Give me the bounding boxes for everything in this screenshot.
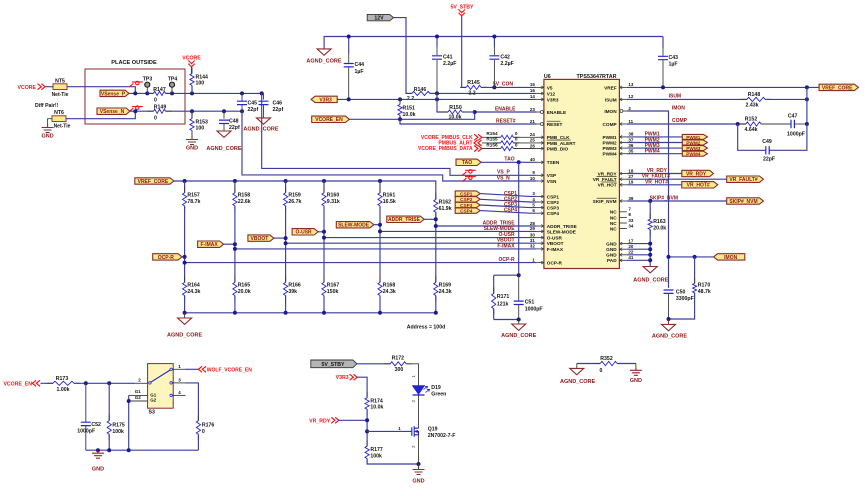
resistor R150 10.0k	[437, 93, 448, 112]
svg-text:100: 100	[196, 81, 205, 87]
capacitor C52 1000pF	[85, 383, 87, 422]
svg-text:16: 16	[530, 88, 536, 93]
svg-text:61.9k: 61.9k	[439, 206, 452, 212]
svg-text:PMB_DIO: PMB_DIO	[547, 146, 569, 151]
wire 5V_STBY to R172	[357, 363, 390, 365]
capacitor C51 1000pF	[518, 275, 520, 301]
svg-text:20: 20	[628, 244, 634, 249]
svg-text:10.0k: 10.0k	[403, 112, 416, 118]
svg-text:33: 33	[628, 218, 634, 223]
svg-text:39k: 39k	[288, 289, 297, 295]
wire VREF/ISUM/COMP vertical	[806, 87, 808, 124]
svg-text:C43: C43	[669, 55, 679, 61]
pin 39 SKIP_NVM (right)	[619, 200, 627, 202]
svg-text:R166: R166	[288, 283, 301, 289]
svg-text:NT5: NT5	[55, 78, 65, 84]
pin 11 COMP (right)	[619, 123, 627, 125]
svg-text:C51: C51	[525, 299, 535, 305]
svg-text:IMON: IMON	[604, 109, 617, 114]
wire VSense_P line	[129, 92, 154, 94]
capacitor C41 2.2uF	[436, 37, 438, 48]
capacitor C49 22pF (feedback)	[738, 124, 766, 150]
svg-text:Green: Green	[431, 391, 446, 397]
pin 9 VSP (left)	[536, 174, 544, 176]
net label V3R3	[311, 96, 337, 102]
svg-text:37: 37	[628, 137, 634, 142]
svg-text:SLEW-MODE: SLEW-MODE	[338, 223, 370, 229]
wire NT5 to VSense_P line	[67, 87, 135, 94]
ground GND (Q19)	[418, 464, 420, 467]
svg-text:TPS53647RTAR: TPS53647RTAR	[576, 74, 616, 80]
diff-pair marker (VS_N)	[462, 176, 476, 182]
wire O-USR to pin 30	[324, 237, 536, 239]
wire ADDR_TRISE to pin 28	[436, 225, 537, 227]
svg-text:ENABLE: ENABLE	[547, 110, 566, 115]
svg-text:VSN: VSN	[547, 179, 557, 184]
svg-text:22pF: 22pF	[763, 157, 775, 163]
wire V12 to pin 16	[430, 92, 537, 94]
pin 34 NC (right)	[619, 228, 627, 230]
svg-text:VR_RDY: VR_RDY	[598, 171, 618, 176]
svg-text:G1: G1	[135, 389, 142, 394]
wire array column 1	[184, 206, 186, 283]
wire IMON down	[627, 111, 669, 288]
svg-text:F-IMAX: F-IMAX	[200, 242, 218, 248]
svg-text:100: 100	[196, 126, 205, 132]
ground rail AGND_CORE (top bus)	[324, 37, 663, 49]
svg-text:NC: NC	[610, 215, 617, 220]
svg-text:SKIP#_NVM: SKIP#_NVM	[729, 199, 757, 205]
wire VSense_N line	[130, 110, 154, 112]
capacitor C47 1000pF	[761, 123, 791, 125]
svg-text:COMP: COMP	[672, 118, 688, 124]
svg-text:C45: C45	[248, 100, 258, 106]
svg-text:R352: R352	[600, 356, 613, 362]
resistor R176 0	[197, 415, 199, 441]
svg-text:2.2µF: 2.2µF	[500, 61, 513, 67]
ground AGND_CORE (C48)	[217, 131, 231, 137]
svg-text:28: 28	[530, 221, 536, 226]
ground AGND_CORE (C46)	[257, 118, 271, 124]
svg-text:TAO: TAO	[504, 157, 514, 163]
svg-text:R177: R177	[370, 447, 383, 453]
svg-text:R156: R156	[486, 142, 498, 147]
svg-text:17: 17	[628, 238, 634, 243]
svg-text:R169: R169	[439, 283, 452, 289]
wire array column 5	[379, 206, 381, 283]
svg-text:Q19: Q19	[428, 427, 438, 433]
svg-text:38: 38	[628, 132, 634, 137]
svg-text:COMP: COMP	[603, 122, 617, 127]
svg-text:VREF_CORE: VREF_CORE	[138, 179, 169, 185]
svg-text:IMON: IMON	[672, 105, 685, 111]
svg-text:1µF: 1µF	[355, 69, 364, 75]
svg-text:30: 30	[530, 232, 536, 237]
pin 7 NC (right)	[619, 211, 627, 213]
svg-text:0: 0	[154, 116, 157, 122]
wire VCORE_EN to ENABLE	[349, 112, 536, 119]
net label VREF_CORE (right)	[819, 84, 858, 90]
svg-text:SKIP#_NVM: SKIP#_NVM	[650, 195, 678, 201]
net label SLEW-MODE (tap)	[336, 222, 374, 228]
svg-text:VR_RDY: VR_RDY	[309, 418, 331, 424]
svg-text:24: 24	[530, 132, 536, 137]
svg-text:22pf: 22pf	[248, 107, 259, 113]
svg-text:V3R3: V3R3	[319, 97, 332, 103]
pin 26 PMB_DIO (left)	[536, 148, 544, 150]
svg-text:OCP-R: OCP-R	[547, 261, 563, 266]
pin 13 VREF (right)	[619, 86, 627, 88]
svg-text:AGND_CORE: AGND_CORE	[306, 58, 341, 64]
svg-text:SLEW-MODE: SLEW-MODE	[484, 226, 516, 232]
svg-text:V3R3: V3R3	[547, 97, 559, 102]
ground GND (R153)	[191, 131, 193, 137]
svg-text:3300pF: 3300pF	[676, 296, 694, 302]
svg-text:1µF: 1µF	[669, 62, 678, 68]
wire switch pin3 to R176	[172, 382, 185, 384]
resistor R169 24.3k	[435, 276, 437, 301]
svg-text:PWM4: PWM4	[686, 152, 700, 157]
svg-text:GND: GND	[606, 253, 617, 258]
resistor R151 10.0k	[399, 98, 401, 121]
svg-text:CSP3: CSP3	[547, 206, 560, 211]
svg-text:0: 0	[515, 137, 518, 142]
switch gate pins G1 G2	[129, 394, 148, 396]
svg-text:24.3k: 24.3k	[439, 289, 452, 295]
resistor R157 78.7k	[184, 181, 186, 193]
svg-text:CSP4: CSP4	[547, 211, 560, 216]
svg-text:VCORE_EN: VCORE_EN	[3, 382, 32, 388]
svg-text:10.0k: 10.0k	[449, 115, 462, 121]
svg-text:AGND_CORE: AGND_CORE	[652, 334, 687, 340]
wire F-IMAX to pin 32	[235, 248, 537, 250]
svg-text:12: 12	[628, 94, 634, 99]
wire ADDR_TRISE tap	[424, 218, 436, 220]
wire OCP-R tap	[182, 256, 185, 258]
svg-text:PAD: PAD	[607, 258, 617, 263]
wire V3R3 to R174	[357, 377, 368, 398]
wire array column 6	[435, 212, 437, 282]
svg-text:AGND_CORE: AGND_CORE	[206, 146, 241, 152]
svg-text:U6: U6	[544, 74, 551, 80]
ground AGND_CORE (C50/R170)	[668, 319, 670, 324]
net label CSP4	[455, 208, 480, 213]
svg-text:39: 39	[628, 196, 634, 201]
pin 16 V12 (left)	[536, 92, 544, 94]
svg-text:C47: C47	[788, 114, 798, 120]
resistor R163 20.0k	[649, 201, 651, 219]
svg-text:VSP: VSP	[547, 173, 556, 178]
svg-text:0: 0	[515, 142, 518, 147]
svg-text:PWM2: PWM2	[603, 140, 617, 145]
wire R154 to pin 24	[513, 136, 536, 138]
svg-text:40: 40	[530, 157, 536, 162]
pin 17 GND (right)	[619, 243, 627, 245]
svg-text:VR_RDY: VR_RDY	[686, 171, 707, 177]
svg-text:NC: NC	[610, 221, 617, 226]
svg-text:2.2µF: 2.2µF	[443, 61, 456, 67]
svg-text:PWM1: PWM1	[686, 135, 700, 140]
wire R173 to switch	[74, 382, 135, 384]
svg-text:GND: GND	[412, 479, 424, 485]
pin 4 CSP2 (left)	[536, 201, 544, 203]
svg-text:GND: GND	[630, 378, 642, 384]
svg-text:RESET#: RESET#	[496, 119, 516, 125]
net label VREF_CORE (array)	[135, 178, 174, 184]
net label ADDR_TRISE (tap)	[387, 216, 424, 222]
wire R172 to LED	[406, 364, 418, 386]
svg-text:VR_HOT: VR_HOT	[598, 183, 617, 188]
resistor R175 100k	[108, 383, 110, 420]
svg-text:22.6k: 22.6k	[238, 199, 251, 205]
svg-text:PWM1: PWM1	[603, 135, 617, 140]
net-tie NT5	[53, 84, 67, 90]
svg-text:PLACE OUTSIDE: PLACE OUTSIDE	[111, 60, 157, 66]
net label PWM3	[627, 147, 682, 149]
wire array bottom bus	[185, 312, 436, 314]
svg-text:VS_N: VS_N	[497, 175, 510, 181]
pin 21 RESET (left)	[536, 123, 544, 125]
power label 5V_STBY (grey)	[311, 360, 357, 368]
svg-text:CSP3: CSP3	[460, 203, 473, 208]
wire bottom-left ground bus	[86, 449, 199, 451]
svg-text:R165: R165	[238, 283, 251, 289]
resistor R166 39k	[285, 276, 287, 301]
ground AGND_CORE (array)	[184, 313, 186, 318]
ground AGND_CORE (bus left end)	[317, 49, 331, 55]
svg-text:22: 22	[628, 250, 634, 255]
svg-text:10: 10	[530, 176, 536, 181]
switch S3 contacts	[149, 382, 151, 384]
pin 22 GND (right)	[619, 254, 627, 256]
net label PWM2	[627, 142, 682, 144]
capacitor C48 22pf	[223, 111, 225, 118]
svg-text:22pf: 22pf	[229, 125, 240, 131]
svg-text:R174: R174	[370, 398, 383, 404]
svg-text:2N7002-7-F: 2N7002-7-F	[428, 433, 456, 439]
svg-text:VSense_N: VSense_N	[100, 109, 125, 115]
svg-text:C41: C41	[443, 54, 453, 60]
svg-text:5V_STBY: 5V_STBY	[321, 362, 345, 368]
pin 24 PMB_CLK (left)	[536, 136, 544, 138]
svg-text:RESET: RESET	[547, 122, 563, 127]
pin 18 VR_RDY (right)	[619, 173, 627, 175]
diff-pair marker (VS_P)	[462, 170, 476, 176]
wire CSP3 to pin	[480, 205, 536, 208]
svg-text:78.7k: 78.7k	[187, 199, 200, 205]
net label VBOOT (tap)	[248, 235, 274, 241]
power label 12V	[367, 14, 393, 20]
resistor R174 10.0k	[366, 392, 368, 415]
svg-text:R155: R155	[486, 137, 498, 142]
svg-text:NC: NC	[610, 226, 617, 231]
wire G2 to ground bus	[128, 395, 130, 450]
svg-text:R167: R167	[327, 283, 340, 289]
ic U6 TPS53647RTAR body	[544, 79, 620, 268]
svg-text:OCP-R: OCP-R	[498, 257, 515, 263]
svg-text:C46: C46	[273, 100, 283, 106]
svg-text:0: 0	[599, 368, 602, 374]
svg-text:41: 41	[628, 255, 634, 260]
svg-text:ADDR_TRISE: ADDR_TRISE	[388, 217, 421, 223]
svg-text:OCP-R: OCP-R	[158, 255, 175, 261]
svg-text:16.5k: 16.5k	[383, 199, 396, 205]
svg-text:10.0k: 10.0k	[370, 405, 383, 411]
wire VCORE to NT5	[46, 86, 54, 88]
svg-text:C48: C48	[229, 118, 239, 124]
wire VSense_N to VSN	[242, 111, 536, 181]
svg-text:D19: D19	[431, 385, 441, 391]
svg-text:V5: V5	[547, 85, 553, 90]
svg-text:34: 34	[628, 223, 634, 228]
wire OCP-R to pin 1	[185, 262, 537, 264]
svg-text:R164: R164	[187, 283, 200, 289]
svg-text:2.43k: 2.43k	[746, 103, 759, 109]
svg-text:G1: G1	[150, 392, 157, 397]
svg-text:26.7k: 26.7k	[288, 199, 301, 205]
svg-text:R161: R161	[383, 193, 396, 199]
net label VCORE_EN	[312, 116, 350, 122]
svg-text:19: 19	[628, 180, 634, 185]
svg-text:1000pF: 1000pF	[787, 132, 805, 138]
capacitor C45 22pf	[241, 93, 243, 101]
resistor R168 24.3k	[379, 276, 381, 301]
svg-text:R172: R172	[392, 355, 405, 361]
capacitor C43 1uF	[662, 37, 664, 49]
transistor Q19 2N7002-7-F	[409, 426, 418, 437]
pin 14 V3R3 (left)	[536, 98, 544, 100]
svg-text:36: 36	[628, 143, 634, 148]
pin 35 PWM4 (right)	[619, 153, 627, 155]
net label OCP-R (tap)	[153, 254, 182, 260]
svg-text:PMB_ALERT: PMB_ALERT	[547, 141, 576, 146]
svg-text:VR_HOT#: VR_HOT#	[645, 179, 668, 185]
pin 23 ENABLE (left)	[536, 111, 544, 113]
svg-text:GND: GND	[606, 247, 617, 252]
resistor R167 150k	[323, 276, 325, 301]
svg-text:VCORE_PMBUS_DATA: VCORE_PMBUS_DATA	[418, 146, 473, 152]
wire array column 4	[323, 206, 325, 283]
svg-text:O-USR: O-USR	[547, 236, 563, 241]
led D19 Green	[413, 386, 425, 395]
pin 8 NC (right)	[619, 216, 627, 218]
wire ISUM line	[627, 98, 747, 100]
svg-text:Address = 100d: Address = 100d	[407, 325, 446, 331]
pin 40 TSEN (left)	[536, 161, 544, 163]
resistor R165 20.0k	[234, 276, 236, 301]
resistor R161 16.5k	[379, 181, 381, 193]
svg-text:R148: R148	[748, 92, 761, 98]
resistor R153 100	[191, 111, 193, 118]
svg-text:G2: G2	[135, 395, 142, 400]
svg-text:VBOOT: VBOOT	[251, 236, 269, 242]
svg-text:GND: GND	[186, 146, 198, 152]
wire TSEN RC branch	[518, 162, 520, 275]
svg-text:ISUM: ISUM	[669, 94, 682, 100]
junction dots VSense_P line	[133, 91, 137, 95]
svg-text:R157: R157	[187, 193, 200, 199]
pin 41 PAD (right)	[619, 259, 627, 261]
svg-text:TAO: TAO	[462, 160, 472, 166]
net label CSP3	[455, 202, 480, 207]
wire R171/C51 to ground	[494, 319, 519, 321]
svg-text:29: 29	[530, 226, 536, 231]
svg-text:VCORE: VCORE	[18, 85, 37, 91]
net label WOLF_VCORE_EN	[198, 366, 206, 372]
resistor R158 22.6k	[234, 181, 236, 193]
svg-text:100k: 100k	[112, 429, 124, 435]
pin 30 O-USR (left)	[536, 237, 544, 239]
wire LED to Q19 drain	[418, 395, 420, 428]
pin 6 CSP4 (left)	[536, 212, 544, 214]
wire array top bus	[174, 181, 436, 200]
wire GND to NT6	[48, 119, 52, 125]
pin 33 NC (right)	[619, 222, 627, 224]
svg-text:150k: 150k	[327, 289, 339, 295]
pin 27 VR_FAULT (right)	[619, 178, 627, 180]
diff-pair marker (VSense_P)	[129, 81, 143, 87]
svg-text:CSP4: CSP4	[504, 208, 517, 214]
svg-text:GND: GND	[41, 134, 53, 140]
wire branch to RESET#	[400, 119, 536, 124]
ground AGND_CORE (IC gnd)	[643, 267, 657, 273]
svg-text:R153: R153	[196, 119, 209, 125]
svg-text:0: 0	[515, 131, 518, 136]
svg-text:CSP4: CSP4	[460, 209, 473, 214]
wire F-IMAX tap	[224, 243, 235, 245]
svg-text:PWM4: PWM4	[603, 152, 617, 157]
wire gate node to Q19	[367, 430, 409, 432]
svg-text:TP3: TP3	[143, 76, 153, 82]
svg-text:121k: 121k	[497, 302, 509, 308]
svg-text:TP4: TP4	[168, 76, 178, 82]
wire VSense_P to VSP	[262, 93, 537, 175]
svg-text:CSP2: CSP2	[547, 200, 560, 205]
svg-text:CSP2: CSP2	[460, 197, 473, 202]
net label VSense_N	[97, 108, 130, 114]
svg-text:48.7k: 48.7k	[698, 289, 711, 295]
svg-text:PMB_CLK: PMB_CLK	[547, 135, 570, 140]
svg-text:18: 18	[628, 168, 634, 173]
ground GND (NT6)	[42, 125, 54, 133]
svg-text:15: 15	[530, 82, 536, 87]
svg-text:C50: C50	[676, 289, 686, 295]
svg-text:9.31k: 9.31k	[327, 199, 340, 205]
svg-text:R171: R171	[497, 294, 510, 300]
ground GND (bottom-left)	[92, 450, 104, 458]
svg-text:ADDR_TRISE: ADDR_TRISE	[547, 224, 577, 229]
resistor R159 26.7k	[285, 181, 287, 193]
wire VR_RDY to gate node	[338, 419, 367, 421]
wire VREF to VREF_CORE	[627, 86, 819, 88]
svg-text:27: 27	[628, 174, 634, 179]
wire CSP2 to pin	[480, 199, 536, 202]
pin 31 VBOOT (left)	[536, 242, 544, 244]
svg-text:5V_STBY: 5V_STBY	[450, 5, 474, 11]
wire SLEW-MODE to pin 29	[380, 230, 536, 232]
resistor R144 100	[191, 68, 193, 92]
svg-text:R168: R168	[383, 283, 396, 289]
svg-text:24.3k: 24.3k	[187, 289, 200, 295]
resistor R154 0	[482, 136, 501, 138]
svg-text:R144: R144	[196, 74, 209, 80]
wire array column 3	[285, 206, 287, 283]
svg-text:AGND_CORE: AGND_CORE	[501, 333, 536, 339]
svg-text:1000pF: 1000pF	[525, 306, 543, 312]
wire array column 2	[234, 206, 236, 283]
svg-text:20.0k: 20.0k	[653, 225, 666, 231]
wire CSP4 to pin	[480, 211, 536, 214]
